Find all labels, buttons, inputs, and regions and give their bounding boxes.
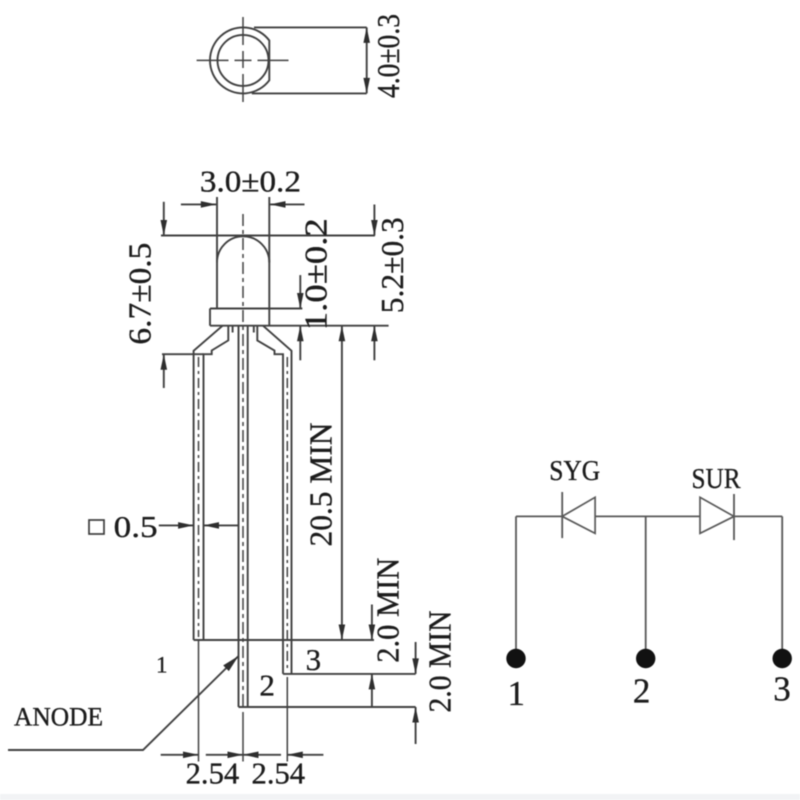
svg-text:2.0 MIN: 2.0 MIN [369, 558, 405, 663]
svg-text:5.2±0.3: 5.2±0.3 [374, 217, 410, 313]
svg-text:2.54: 2.54 [252, 756, 306, 791]
svg-text:SYG: SYG [549, 455, 600, 487]
svg-text:3: 3 [306, 642, 322, 677]
svg-text:2.54: 2.54 [186, 756, 240, 791]
svg-text:1.0±0.2: 1.0±0.2 [298, 218, 334, 330]
svg-text:4.0±0.3: 4.0±0.3 [370, 14, 406, 98]
svg-text:2: 2 [633, 672, 651, 711]
svg-text:2: 2 [259, 668, 275, 703]
svg-text:ANODE: ANODE [14, 703, 103, 732]
svg-text:2.0 MIN: 2.0 MIN [422, 611, 458, 713]
svg-text:6.7±0.5: 6.7±0.5 [122, 243, 158, 345]
svg-text:3.0±0.2: 3.0±0.2 [200, 164, 301, 199]
svg-text:1: 1 [508, 674, 526, 713]
svg-text:0.5: 0.5 [114, 509, 158, 544]
svg-text:3: 3 [773, 670, 791, 709]
svg-text:1: 1 [156, 652, 168, 677]
svg-text:SUR: SUR [692, 463, 742, 495]
svg-text:20.5 MIN: 20.5 MIN [303, 423, 339, 547]
